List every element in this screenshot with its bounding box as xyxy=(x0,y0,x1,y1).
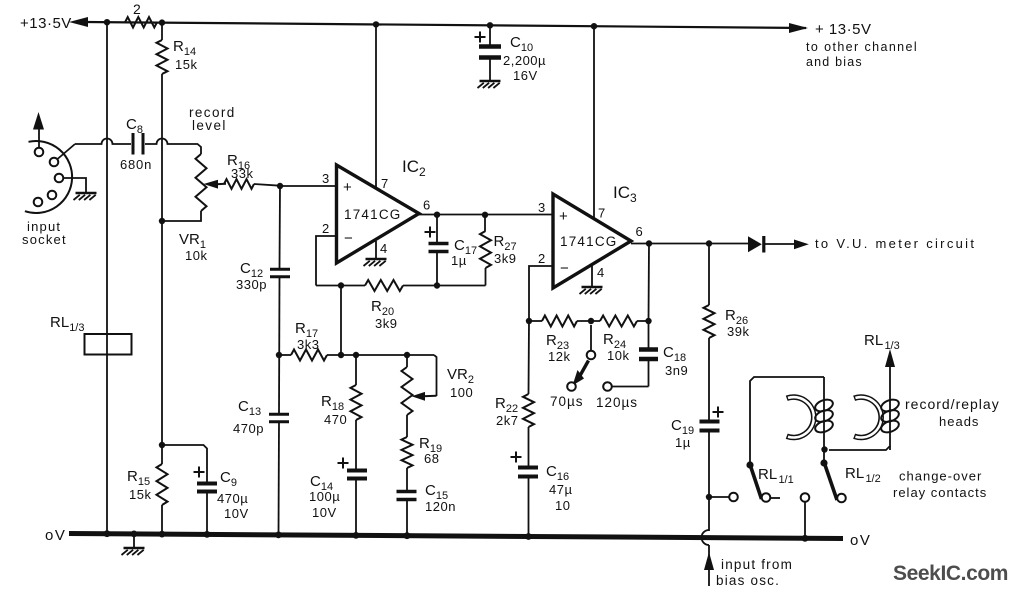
label pin 2 IC2 xyxy=(322,221,329,236)
svg-text:7: 7 xyxy=(381,176,388,191)
arrowhead left +13.5V xyxy=(69,17,88,27)
wire left bus x=107 from supply to 0V xyxy=(106,22,108,534)
svg-text:1741CG: 1741CG xyxy=(560,234,617,249)
svg-text:+: + xyxy=(343,179,352,196)
resistor R18 470 xyxy=(321,355,362,470)
wiper arrow VR2 xyxy=(412,392,437,401)
svg-text:120n: 120n xyxy=(425,499,456,514)
node supply-left junction xyxy=(104,19,110,25)
label to V.U. meter circuit xyxy=(815,236,976,251)
wire IC2 pin7 from supply xyxy=(375,24,377,189)
ground input socket xyxy=(74,193,97,200)
wire 0V rail xyxy=(69,534,843,539)
ground IC3 pin4 xyxy=(580,287,603,294)
node R17/R20-branch junction xyxy=(338,352,344,358)
potentiometer VR2 100 xyxy=(402,355,474,415)
label pin 4 IC3 xyxy=(597,265,604,280)
label RL1/3 head xyxy=(864,332,900,352)
label pin 3 IC2 xyxy=(322,171,329,186)
label IC2 xyxy=(402,157,426,179)
socket pin 3 xyxy=(55,174,64,183)
resistor R20 3k9 xyxy=(365,280,403,331)
svg-text:15k: 15k xyxy=(129,487,151,502)
diode to VU meter xyxy=(748,236,764,253)
svg-text:16V: 16V xyxy=(513,68,538,83)
node 0V rail junction xyxy=(159,531,166,538)
svg-text:4: 4 xyxy=(380,241,387,256)
capacitor C19 1u electrolytic xyxy=(671,407,724,532)
node RL1/2 head junction xyxy=(821,446,827,452)
wire IC2 output to IC3 pin3 xyxy=(419,214,553,216)
op-amp IC3 1741CG xyxy=(553,194,631,288)
capacitor C18 3n9 xyxy=(639,344,688,378)
wire +13.5V top supply rail xyxy=(86,22,806,28)
svg-text:relay contacts: relay contacts xyxy=(893,485,987,500)
node 0V rail junction xyxy=(131,531,138,538)
resistor R24 10k xyxy=(600,316,637,364)
svg-text:−: − xyxy=(560,260,569,277)
svg-text:1µ: 1µ xyxy=(675,435,691,450)
node 0V rail junction xyxy=(404,532,411,539)
svg-text:−: − xyxy=(344,230,353,247)
relay coil RL1/3 box xyxy=(85,334,132,355)
op-amp IC2 1741CG xyxy=(337,165,420,263)
head right gap arc xyxy=(854,397,881,437)
svg-text:2: 2 xyxy=(133,1,141,17)
svg-text:3: 3 xyxy=(322,171,329,186)
svg-text:12k: 12k xyxy=(548,349,570,364)
wire R23-R24 row xyxy=(529,320,649,322)
wire socket pin3 to ground xyxy=(64,178,87,192)
label RL1/1 xyxy=(758,466,794,486)
resistor R17 3k3 xyxy=(291,320,327,361)
node R16 / IC2 pin3 junction xyxy=(277,183,283,189)
wire IC2 pin2 input xyxy=(316,236,337,286)
svg-text:3k3: 3k3 xyxy=(297,337,319,352)
svg-text:39k: 39k xyxy=(727,324,749,339)
wire IC3 pin4 xyxy=(591,265,593,286)
node R26 top junction xyxy=(706,240,712,246)
capacitor C15 120n xyxy=(397,468,456,535)
svg-text:and bias: and bias xyxy=(806,55,863,69)
wire IC2 pin4 xyxy=(375,241,377,258)
wire socket pin2 to C8 xyxy=(58,144,76,159)
label heads xyxy=(939,414,979,429)
label pin 4 IC2 xyxy=(380,241,387,256)
svg-text:2: 2 xyxy=(538,251,545,266)
node 0V rail junction xyxy=(104,530,111,537)
label relay contacts xyxy=(893,485,987,500)
svg-text:to V.U. meter circuit: to V.U. meter circuit xyxy=(815,236,976,251)
wire C8 row with hops over vertical buses xyxy=(75,139,201,154)
svg-text:100µ: 100µ xyxy=(309,489,340,504)
socket pin 5 xyxy=(34,198,43,207)
label record/replay xyxy=(905,396,1000,412)
wire hop over 0V rail xyxy=(702,530,709,545)
socket pin 1 xyxy=(35,148,44,157)
wire R14/R15 bus upper x=162 xyxy=(161,23,163,535)
svg-text:2: 2 xyxy=(322,221,329,236)
contact 120us xyxy=(603,382,612,391)
label 120us xyxy=(596,395,638,410)
capacitor C13 470p xyxy=(233,398,289,436)
resistor R22 2k7 xyxy=(495,321,534,428)
svg-text:to other channel: to other channel xyxy=(806,40,918,54)
svg-text:120µs: 120µs xyxy=(596,395,638,410)
svg-text:6: 6 xyxy=(636,224,643,239)
svg-text:+13·5V: +13·5V xyxy=(20,15,72,32)
svg-text:bias osc.: bias osc. xyxy=(716,573,780,588)
resistor R16 33k xyxy=(224,152,280,189)
capacitor C14 100u electrolytic xyxy=(309,458,367,536)
arrowhead to VU meter xyxy=(794,240,809,250)
label RL1/2 xyxy=(845,465,881,485)
wire IC2 pin3 input xyxy=(280,185,336,187)
switch blade to 70us xyxy=(573,361,589,386)
capacitor C16 47u electrolytic xyxy=(511,427,573,536)
svg-text:record/replay: record/replay xyxy=(905,396,1000,412)
node IC3 pin7 supply junction xyxy=(591,23,597,29)
node RL1/2 pivot xyxy=(820,459,827,466)
resistor R27 3k9 xyxy=(480,215,517,286)
switch blade RL1/1 xyxy=(751,466,762,499)
svg-text:33k: 33k xyxy=(231,166,253,181)
ground 0V rail xyxy=(122,534,145,555)
node IC2 pin7 supply junction xyxy=(373,21,379,27)
head right coil turns xyxy=(880,397,901,434)
node VR2 top junction xyxy=(404,352,410,358)
svg-text:1741CG: 1741CG xyxy=(344,207,401,222)
wire IC3 output row xyxy=(631,243,795,246)
node C17 top junction xyxy=(434,212,440,218)
watermark SeekIC.com xyxy=(893,562,1008,585)
node R18 top junction xyxy=(353,352,359,358)
svg-text:level: level xyxy=(192,118,227,133)
label pin 7 IC3 xyxy=(598,206,605,221)
label and bias xyxy=(806,55,863,69)
node 0V rail junction xyxy=(204,531,211,538)
arrow up from socket pin 1 xyxy=(33,112,44,148)
node C10 supply junction xyxy=(487,22,493,28)
capacitor C8 680n xyxy=(120,116,152,172)
socket pin 2 xyxy=(50,158,59,167)
wire RL1/1 arm from head xyxy=(750,377,824,465)
node 0V rail junction xyxy=(802,535,809,542)
input socket DIN connector arc xyxy=(25,141,72,213)
node 0V rail junction xyxy=(275,532,282,539)
svg-text:6: 6 xyxy=(423,198,430,213)
node R15/C9 branch junction xyxy=(159,442,165,448)
capacitor C9 470u electrolytic xyxy=(162,445,249,535)
node C17 bottom junction xyxy=(434,282,440,288)
label pin 6 IC3 xyxy=(636,224,643,239)
resistor 2 (supply dropper) xyxy=(125,1,157,28)
node RL1/1 pivot xyxy=(746,461,753,468)
svg-text:330p: 330p xyxy=(236,277,267,292)
contact RL1/1 xyxy=(762,493,771,502)
svg-text:10V: 10V xyxy=(224,506,249,521)
svg-text:3k9: 3k9 xyxy=(375,316,397,331)
svg-text:10k: 10k xyxy=(607,348,629,363)
label pin 2 IC3 xyxy=(538,251,545,266)
switch pole equalisation xyxy=(587,325,596,359)
node 0V rail junction xyxy=(525,533,532,540)
label change-over xyxy=(899,469,982,484)
wiper arrow VR1 xyxy=(204,180,227,189)
label bias osc. xyxy=(716,573,780,588)
head right core and coil line xyxy=(829,388,890,450)
wire C19 to contact xyxy=(709,496,730,498)
svg-text:10k: 10k xyxy=(185,248,207,263)
wire branch down to R17 row xyxy=(340,286,342,356)
svg-text:680n: 680n xyxy=(120,157,152,172)
wire IC2 feedback row xyxy=(316,285,486,287)
svg-text:+ 13·5V: + 13·5V xyxy=(815,21,871,38)
node R23/R24 switch junction xyxy=(588,318,594,324)
wire R17 row xyxy=(279,355,437,394)
svg-text:1µ: 1µ xyxy=(451,253,467,268)
svg-text:7: 7 xyxy=(598,206,605,221)
svg-text:15k: 15k xyxy=(175,57,197,72)
svg-text:socket: socket xyxy=(22,232,67,247)
wire IC3 output to C18 column xyxy=(648,244,651,387)
label IC3 xyxy=(613,183,637,205)
wire IC3 pin7 from supply xyxy=(593,26,595,218)
head left gap arc xyxy=(787,397,814,437)
svg-text:470p: 470p xyxy=(233,421,264,436)
svg-text:change-over: change-over xyxy=(899,469,982,484)
svg-text:10: 10 xyxy=(555,498,570,513)
svg-text:+: + xyxy=(559,208,568,225)
contact 70us xyxy=(567,382,576,391)
ground IC2 pin4 xyxy=(364,259,387,266)
ground C10 xyxy=(478,81,501,88)
potentiometer VR1 10k xyxy=(165,154,207,263)
wire IC3 pin2 input xyxy=(529,266,553,321)
wire stub RL1/1 contact xyxy=(771,497,781,499)
label record level xyxy=(189,105,236,133)
svg-text:3n9: 3n9 xyxy=(665,363,688,378)
node supply-R14 junction xyxy=(159,19,165,25)
svg-text:oV: oV xyxy=(850,532,871,549)
label to other channel xyxy=(806,40,918,54)
label 0V right xyxy=(850,532,871,549)
node IC3 pin2 feedback junction xyxy=(526,318,532,324)
svg-text:470: 470 xyxy=(324,412,347,427)
resistor R15 15k xyxy=(127,464,168,505)
svg-text:10V: 10V xyxy=(312,505,337,520)
node IC3 output junction xyxy=(646,240,652,246)
label 70us xyxy=(550,394,584,409)
label input xyxy=(27,219,61,234)
label pin 3 IC3 xyxy=(538,200,545,215)
svg-text:3k9: 3k9 xyxy=(494,251,516,266)
wire 120us link xyxy=(612,386,649,388)
svg-text:3: 3 xyxy=(538,200,545,215)
contact to 0V xyxy=(801,493,810,536)
capacitor C10 2200u reservoir xyxy=(475,25,547,83)
contact RL1/2 xyxy=(837,494,846,503)
resistor R26 39k xyxy=(704,244,750,422)
label +13.5V left xyxy=(20,15,72,32)
label +13.5V right xyxy=(815,21,871,38)
node R17 left junction xyxy=(276,352,282,358)
capacitor C17 1u electrolytic xyxy=(425,215,478,286)
arrow RL1/3 head feed xyxy=(885,349,895,388)
head left core and coil line xyxy=(823,377,825,463)
label input from xyxy=(721,557,793,572)
node VR1 bottom junction xyxy=(159,218,165,224)
wire C12-C13 column xyxy=(279,186,281,535)
svg-text:70µs: 70µs xyxy=(550,394,584,409)
head left coil turns xyxy=(814,397,835,434)
resistor R14 15k xyxy=(157,38,198,74)
resistor R19 68 xyxy=(402,415,443,468)
svg-text:470µ: 470µ xyxy=(217,491,248,506)
svg-text:47µ: 47µ xyxy=(549,482,572,497)
svg-text:SeekIC.com: SeekIC.com xyxy=(893,562,1008,585)
svg-text:100: 100 xyxy=(450,385,473,400)
node R27 top junction xyxy=(482,212,488,218)
switch blade RL1/2 xyxy=(825,465,837,500)
node 0V rail junction xyxy=(353,532,360,539)
arrowhead bias input xyxy=(704,552,714,570)
node C18 top junction xyxy=(645,318,651,324)
svg-text:input from: input from xyxy=(721,557,793,572)
svg-text:oV: oV xyxy=(45,527,66,544)
svg-text:2k7: 2k7 xyxy=(496,413,518,428)
svg-text:68: 68 xyxy=(424,451,439,466)
socket pin 4 xyxy=(48,191,57,200)
node feedback/R17 branch junction xyxy=(338,282,344,288)
label pin 7 IC2 xyxy=(381,176,388,191)
label 0V left xyxy=(45,527,66,544)
arrowhead right to other channel xyxy=(789,23,808,33)
capacitor C12 330p xyxy=(236,260,290,292)
node C19 relay branch junction xyxy=(706,494,712,500)
label socket xyxy=(22,232,67,247)
wire bias oscillator input xyxy=(708,545,710,586)
svg-text:heads: heads xyxy=(939,414,979,429)
label pin 6 IC2 xyxy=(423,198,430,213)
contact circle left of RL1/1 xyxy=(729,493,738,502)
svg-text:2,200µ: 2,200µ xyxy=(503,53,546,68)
resistor R23 12k xyxy=(542,316,577,365)
label RL1/3 coil xyxy=(50,314,84,334)
svg-text:4: 4 xyxy=(597,265,604,280)
